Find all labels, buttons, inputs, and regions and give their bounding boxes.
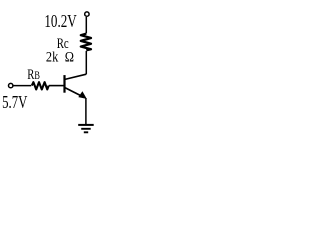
- wire terminal to RB: [13, 85, 31, 87]
- svg-text:10.2V: 10.2V: [44, 12, 77, 32]
- ground: [78, 125, 94, 132]
- wire emitter diagonal: [65, 88, 84, 98]
- node Vcc terminal: [85, 12, 89, 16]
- wire RB to base: [49, 85, 64, 87]
- wire collector diagonal: [65, 74, 86, 79]
- svg-text:2k: 2k: [46, 49, 59, 65]
- node Vin terminal: [9, 83, 13, 87]
- resistor Rc: [81, 34, 91, 51]
- transistor Q1 base bar: [63, 75, 65, 93]
- wire terminal to Rc: [85, 17, 87, 34]
- wire emitter to ground: [85, 98, 87, 125]
- resistor RB: [32, 82, 49, 89]
- transistor emitter arrowhead: [79, 92, 86, 99]
- wire Rc to collector corner: [85, 51, 87, 74]
- svg-text:Ω: Ω: [65, 49, 74, 65]
- svg-text:5.7V: 5.7V: [2, 93, 28, 113]
